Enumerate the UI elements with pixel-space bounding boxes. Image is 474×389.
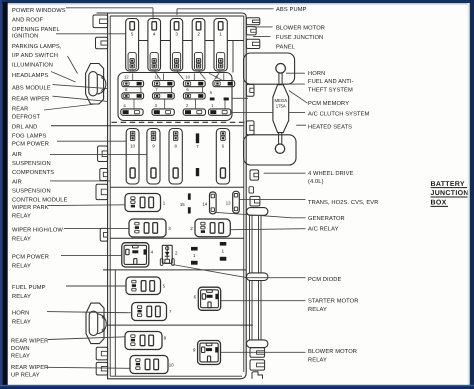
mega fuse bottom terminal circle bbox=[275, 144, 284, 153]
leader pcm power relay bbox=[61, 255, 122, 257]
leader rear wiper bbox=[53, 96, 108, 101]
svg-text:JUNCTION: JUNCTION bbox=[431, 190, 469, 197]
relay 2 a/c bbox=[190, 219, 230, 237]
label blower motor relay bbox=[308, 348, 357, 364]
leader air suspension control module bbox=[50, 180, 110, 182]
svg-text:BOX: BOX bbox=[431, 200, 447, 207]
mini fuse 2 bbox=[183, 103, 205, 115]
svg-text:TRANS, HO2S. CVS, EVR: TRANS, HO2S. CVS, EVR bbox=[308, 199, 378, 206]
svg-text:(4.0L): (4.0L) bbox=[308, 178, 324, 185]
leader wiper high-low relay bbox=[64, 227, 129, 229]
mini fuse 1 bbox=[209, 103, 231, 115]
inner wall lower left bbox=[114, 270, 116, 376]
relay 1 wiper park bbox=[125, 194, 166, 212]
cover solid line bbox=[51, 125, 244, 127]
leader horn bbox=[286, 72, 305, 74]
svg-text:POWER WINDOWS: POWER WINDOWS bbox=[12, 7, 66, 14]
svg-text:ABS PUMP: ABS PUMP bbox=[276, 6, 307, 13]
svg-text:OPENING PANEL: OPENING PANEL bbox=[12, 26, 60, 33]
right tab top 2 bbox=[246, 27, 256, 35]
left tab mid 3 bbox=[96, 184, 108, 199]
svg-text:GENERATOR: GENERATOR bbox=[308, 215, 345, 222]
svg-text:13: 13 bbox=[226, 201, 231, 206]
svg-text:175A: 175A bbox=[276, 104, 286, 109]
mega fuse bottom stem bbox=[279, 133, 282, 144]
right rail cap bottom bbox=[247, 340, 268, 348]
right small square tab bbox=[249, 187, 254, 193]
svg-text:STARTER MOTOR: STARTER MOTOR bbox=[308, 298, 359, 305]
mega fuse top terminal circle bbox=[276, 64, 286, 74]
divider line y187 bbox=[110, 186, 244, 188]
leader rear wiper up relay bbox=[47, 367, 130, 368]
right tab trans bbox=[250, 196, 260, 206]
left tab mid 2 bbox=[100, 169, 108, 181]
label starter motor relay bbox=[308, 298, 359, 314]
mini fuse 8 bbox=[122, 87, 144, 99]
pcm diode D2 bbox=[160, 245, 178, 265]
mega fuse mount plate lower bbox=[244, 135, 296, 165]
leader abs pump from fuse 3 bbox=[177, 9, 274, 15]
right rail cap top bbox=[247, 208, 268, 216]
svg-text:PCM MEMORY: PCM MEMORY bbox=[308, 100, 349, 107]
label air suspension control module bbox=[12, 179, 68, 203]
cartridge fuse 8 bbox=[169, 129, 182, 185]
svg-text:RELAY: RELAY bbox=[308, 307, 327, 313]
label battery junction box heading bbox=[431, 181, 470, 207]
relay 5 fuel pump bbox=[126, 277, 166, 295]
label rear wiper down relay bbox=[11, 338, 48, 359]
leader air suspension components to fuse 9 bbox=[50, 154, 147, 156]
right foot bottom corner bbox=[252, 372, 263, 379]
label wiper park relay bbox=[12, 205, 49, 220]
label pcm power relay bbox=[12, 253, 49, 269]
wall right of maxi fuse row bbox=[232, 41, 234, 73]
label fuel pump relay bbox=[12, 285, 46, 300]
svg-text:A/C CLUTCH SYSTEM: A/C CLUTCH SYSTEM bbox=[308, 111, 370, 118]
shelf stub line bbox=[232, 97, 248, 99]
svg-text:WIPER HIGH/LOW: WIPER HIGH/LOW bbox=[12, 226, 63, 233]
empty slot 15 bbox=[180, 193, 191, 213]
leader abs module bbox=[53, 85, 108, 89]
svg-text:BLOWER MOTOR: BLOWER MOTOR bbox=[308, 348, 357, 355]
left mounting ear lower bbox=[86, 303, 106, 344]
leader generator bbox=[215, 212, 306, 218]
mini fuse 10 bbox=[183, 75, 205, 87]
svg-text:PCM DIODE: PCM DIODE bbox=[308, 276, 342, 283]
mega fuse 175A body bbox=[273, 85, 289, 133]
leader ignition to fuse 5 bbox=[56, 33, 126, 35]
right tab bottom 1 bbox=[250, 348, 265, 357]
leader fuse junction panel bbox=[253, 35, 271, 37]
svg-text:RELAY: RELAY bbox=[12, 294, 31, 300]
right tab bottom 2 bbox=[250, 360, 265, 370]
fuse 13 bbox=[226, 191, 239, 213]
empty slot 1 left bbox=[191, 247, 198, 265]
svg-text:REAR: REAR bbox=[12, 106, 28, 112]
shelf line under maxi fuses bbox=[139, 40, 244, 42]
relay 7 horn bbox=[132, 303, 172, 321]
relay 9 blower motor bbox=[193, 341, 221, 365]
left tab mid 1 bbox=[98, 146, 108, 162]
svg-text:MEGA: MEGA bbox=[274, 98, 287, 103]
fuse 14 bbox=[202, 192, 216, 214]
svg-text:HEADLAMPS: HEADLAMPS bbox=[12, 72, 48, 79]
svg-text:10: 10 bbox=[130, 144, 135, 149]
svg-text:DRL AND: DRL AND bbox=[12, 124, 37, 130]
svg-text:PARKING LAMPS,: PARKING LAMPS, bbox=[12, 43, 62, 50]
mega fuse top stem bbox=[279, 73, 282, 85]
svg-text:IGNITION: IGNITION bbox=[12, 32, 38, 39]
label wiper high-low relay bbox=[12, 226, 63, 242]
leader blower motor bbox=[253, 26, 273, 28]
leader trans ho2s cvs evr bbox=[239, 199, 305, 201]
empty mini slot 5 bbox=[210, 90, 229, 100]
right tab mid 1 bbox=[246, 84, 254, 96]
leader pcm memory bbox=[289, 91, 308, 104]
svg-text:14: 14 bbox=[202, 201, 207, 206]
left mounting ear upper bbox=[86, 64, 106, 105]
mini fuse container bbox=[118, 73, 232, 121]
mini fuse bus connector lines bbox=[133, 73, 225, 109]
mini fuse 7 bbox=[153, 87, 175, 99]
battery junction box outline bbox=[97, 13, 247, 379]
svg-text:REAR WIPER: REAR WIPER bbox=[11, 365, 48, 371]
cartridge fuse 6 bbox=[216, 129, 229, 185]
leader a/c clutch system bbox=[232, 112, 305, 114]
svg-text:15: 15 bbox=[180, 202, 185, 207]
mini fuse 4 bbox=[121, 103, 143, 115]
right rail vertical lines bbox=[250, 215, 262, 340]
svg-text:REAR WIPER: REAR WIPER bbox=[11, 338, 48, 344]
relay 4 pcm power bbox=[122, 243, 154, 267]
maxi fuse 2 bbox=[192, 19, 205, 72]
svg-text:FOG LAMPS: FOG LAMPS bbox=[12, 132, 47, 139]
leader pcm diode bbox=[173, 265, 306, 278]
empty slot 1 right bbox=[220, 242, 227, 261]
maxi fuse 5 bbox=[126, 19, 139, 72]
label power windows and roof opening panel bbox=[12, 7, 66, 33]
leader wiper park relay bbox=[48, 204, 125, 207]
label drl and fog lamps bbox=[12, 124, 47, 139]
svg-text:10: 10 bbox=[169, 363, 174, 368]
leader horn relay bbox=[47, 312, 132, 313]
label 4 wheel drive 4.0L bbox=[308, 171, 354, 185]
mini fuse 11 bbox=[153, 75, 175, 87]
mini fuse 3 bbox=[152, 103, 174, 115]
divider line y238 bbox=[110, 237, 244, 239]
cartridge fuse 9 bbox=[147, 129, 160, 185]
empty cartridge slot 7 bbox=[196, 133, 200, 176]
svg-text:REAR WIPER: REAR WIPER bbox=[12, 96, 49, 102]
svg-text:RELAY: RELAY bbox=[12, 319, 31, 325]
svg-text:DEFROST: DEFROST bbox=[12, 113, 41, 120]
svg-text:ABS MODULE: ABS MODULE bbox=[12, 84, 51, 91]
label air suspension components bbox=[12, 152, 54, 176]
svg-text:FUEL PUMP: FUEL PUMP bbox=[12, 285, 46, 291]
right tab 4wd bbox=[250, 170, 259, 180]
leader blower motor relay bbox=[221, 351, 306, 353]
svg-text:RELAY: RELAY bbox=[12, 236, 31, 242]
divider line y325 bbox=[107, 324, 253, 326]
svg-text:A/C RELAY: A/C RELAY bbox=[308, 225, 339, 232]
svg-text:4 WHEEL DRIVE: 4 WHEEL DRIVE bbox=[308, 171, 354, 177]
label rear defrost bbox=[12, 106, 41, 120]
left tab top 2 bbox=[96, 37, 108, 49]
divider line y270 bbox=[103, 269, 246, 271]
label horn relay bbox=[12, 309, 31, 325]
svg-text:DOWN: DOWN bbox=[11, 345, 30, 352]
svg-text:UP RELAY: UP RELAY bbox=[11, 372, 40, 378]
maxi fuse 1 bbox=[214, 19, 227, 72]
mini fuse 12 bbox=[122, 75, 144, 87]
svg-text:PANEL: PANEL bbox=[276, 44, 295, 50]
maxi fuse 3 bbox=[170, 19, 182, 72]
maxi to mini connector diagonals bbox=[154, 71, 220, 80]
cover dashed line bbox=[112, 121, 249, 123]
svg-text:FUSE JUNCTION: FUSE JUNCTION bbox=[276, 34, 323, 41]
leader pcm power to fuse 10 bbox=[57, 140, 126, 142]
leader rear defrost bbox=[44, 104, 100, 111]
left tab top 1 bbox=[93, 15, 108, 28]
svg-text:RELAY: RELAY bbox=[12, 263, 31, 269]
svg-text:RELAY: RELAY bbox=[12, 213, 31, 219]
svg-text:CONTROL MODULE: CONTROL MODULE bbox=[12, 196, 68, 203]
leader heated seats bbox=[296, 124, 306, 126]
svg-text:RELAY: RELAY bbox=[11, 354, 30, 360]
cartridge fuse 10 bbox=[126, 129, 139, 185]
left tab bottom 1 bbox=[96, 347, 107, 360]
leader rear wiper down relay bbox=[48, 337, 125, 340]
leader fuel pump relay bbox=[66, 285, 126, 287]
relay 3 wiper high-low bbox=[129, 219, 171, 237]
leader fuel and anti-theft bbox=[282, 83, 305, 85]
svg-text:ILLUMINATION: ILLUMINATION bbox=[12, 62, 53, 69]
svg-text:FUEL AND ANTI-: FUEL AND ANTI- bbox=[308, 79, 354, 85]
svg-text:HORN: HORN bbox=[12, 309, 29, 316]
label parking lamps ip and switch illumination bbox=[12, 43, 62, 69]
svg-text:I/P AND SWITCH: I/P AND SWITCH bbox=[12, 52, 58, 59]
svg-text:PCM POWER: PCM POWER bbox=[12, 253, 49, 260]
mini fuse 6 bbox=[183, 87, 205, 99]
right tab top 3 bbox=[246, 39, 259, 48]
relay 6 starter motor bbox=[194, 287, 221, 310]
svg-text:AND ROOF: AND ROOF bbox=[12, 17, 44, 24]
relay 8 rear wiper down bbox=[125, 332, 167, 350]
leader starter motor relay bbox=[221, 300, 306, 302]
label fuel and anti-theft system bbox=[308, 79, 354, 94]
right tab mid 2 bbox=[246, 121, 254, 135]
svg-text:SUSPENSION: SUSPENSION bbox=[12, 187, 51, 194]
svg-text:12: 12 bbox=[124, 75, 129, 80]
svg-text:PCM POWER: PCM POWER bbox=[12, 140, 49, 147]
svg-text:COMPONENTS: COMPONENTS bbox=[12, 169, 54, 176]
mini fuse 9 bbox=[213, 75, 235, 87]
svg-text:BLOWER MOTOR: BLOWER MOTOR bbox=[276, 25, 325, 32]
leader power windows to fuse 4 bbox=[66, 8, 153, 20]
maxi fuse 4 bbox=[148, 19, 161, 72]
svg-text:THEFT SYSTEM: THEFT SYSTEM bbox=[308, 87, 353, 94]
leader headlamps bbox=[51, 72, 76, 83]
leader a/c relay bbox=[230, 229, 305, 230]
relay 10 rear wiper up bbox=[130, 356, 174, 374]
svg-text:WIPER PARK: WIPER PARK bbox=[12, 205, 49, 211]
right tab top 1 bbox=[246, 18, 259, 25]
left tab mid 4 bbox=[100, 228, 107, 241]
mega fuse mount plate upper bbox=[244, 53, 295, 84]
right rail cap middle bbox=[247, 273, 268, 281]
svg-text:AIR: AIR bbox=[12, 179, 22, 185]
left tab bottom 2 bbox=[96, 362, 107, 375]
leader 4 wheel drive bbox=[264, 172, 306, 174]
label fuse junction panel bbox=[276, 34, 323, 50]
svg-text:HORN: HORN bbox=[308, 70, 325, 77]
svg-text:HEATED SEATS: HEATED SEATS bbox=[308, 123, 352, 130]
svg-text:10: 10 bbox=[185, 75, 190, 80]
svg-text:AIR: AIR bbox=[12, 152, 22, 158]
svg-text:11: 11 bbox=[154, 75, 159, 80]
label rear wiper up relay bbox=[11, 365, 48, 379]
leader parking lamps bbox=[68, 56, 78, 74]
svg-text:SUSPENSION: SUSPENSION bbox=[12, 160, 51, 167]
svg-text:BATTERY: BATTERY bbox=[431, 181, 465, 188]
svg-text:RELAY: RELAY bbox=[308, 357, 327, 363]
